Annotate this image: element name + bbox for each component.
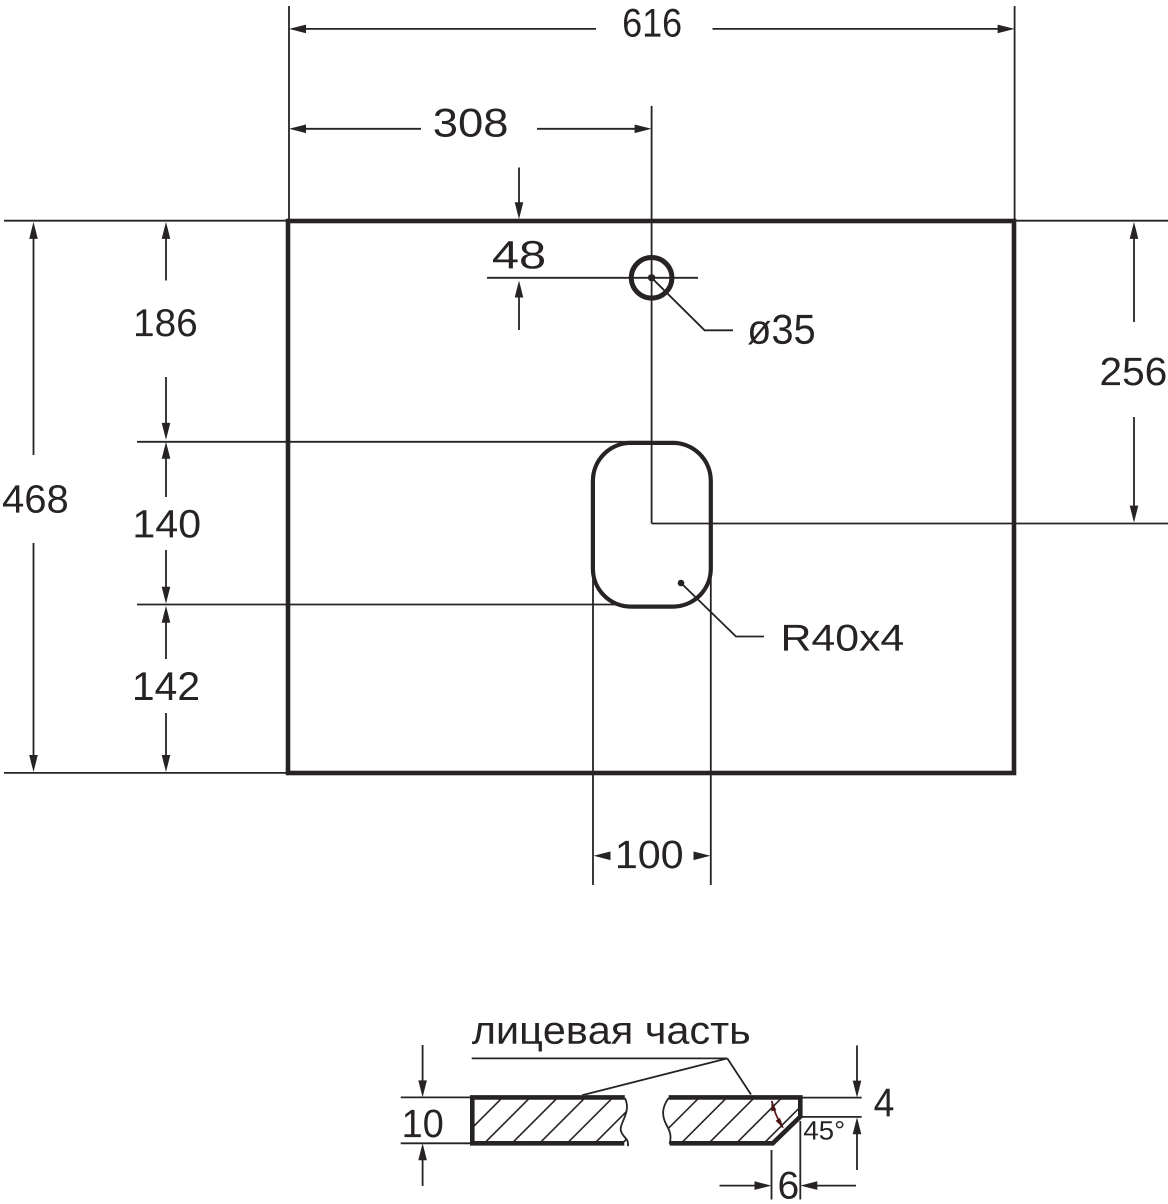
- dim 6 dimension arrows: [720, 1181, 857, 1190]
- section left slab: [472, 1095, 628, 1146]
- leader line front part: [472, 1058, 751, 1095]
- dim 616 extension line left: [288, 6, 290, 219]
- leader line R40x4: [681, 583, 764, 637]
- dim 10 upper arrow: [418, 1045, 427, 1097]
- dim 308 dimension line: [289, 125, 652, 134]
- dim 142 dimension line: [162, 606, 171, 772]
- dim 4 label: [875, 1089, 894, 1117]
- drain cutout rounded rectangle R40x4: [593, 443, 711, 607]
- dim 10 label: [405, 1110, 443, 1138]
- dim 308 label: [435, 109, 507, 138]
- top edge extension line left: [4, 220, 288, 222]
- dim 48 lower arrow: [515, 281, 524, 331]
- dim 140 label: [136, 510, 200, 538]
- label 45 degrees: [804, 1121, 844, 1140]
- top edge extension line right: [1014, 220, 1168, 222]
- dim 100 arrows: [594, 852, 711, 861]
- dim 142 label: [135, 672, 198, 700]
- dim 6 label: [780, 1172, 798, 1200]
- label ø35: [748, 315, 814, 345]
- dim 48 upper arrow: [515, 168, 524, 220]
- dim 256 dimension line: [1130, 222, 1139, 523]
- angle arc 45 degrees: [771, 1100, 784, 1129]
- label R40x4: [784, 625, 903, 652]
- dim 616 extension line right: [1014, 6, 1016, 219]
- dim 100 extension line right: [710, 576, 712, 885]
- leader line ø35: [653, 279, 734, 331]
- dim 4 lower arrow: [853, 1117, 862, 1170]
- dim 10 lower arrow: [418, 1143, 427, 1186]
- dim 616 dimension line: [289, 25, 1015, 34]
- faucet hole center dot: [648, 274, 655, 281]
- dim 4 extension lines: [801, 1097, 862, 1099]
- label front part (лицевая часть): [472, 1023, 749, 1052]
- leader dot R40x4: [678, 580, 685, 587]
- dim 186 label: [136, 309, 196, 337]
- dim 48 label: [493, 241, 544, 269]
- dim 140 dimension line: [162, 442, 171, 604]
- cutout top extension line: [137, 441, 651, 443]
- dim 468 dimension line: [29, 222, 38, 772]
- dim 10 extension lines: [401, 1096, 470, 1098]
- faucet hole horizontal center line: [487, 277, 698, 279]
- hatching left slab: [426, 1094, 671, 1146]
- bottom edge extension line left: [4, 772, 288, 774]
- cutout bottom extension line: [137, 604, 618, 606]
- faucet hole vertical center line: [651, 106, 653, 524]
- dim 616 label: [624, 9, 681, 37]
- dim 100 label: [618, 841, 682, 869]
- dim 4 upper arrow: [853, 1045, 862, 1097]
- dim 256 label: [1102, 358, 1166, 386]
- cutout horizontal center line to right: [652, 523, 1168, 525]
- section right slab: [663, 1095, 803, 1146]
- dim 6 extension line left: [771, 1150, 773, 1200]
- dim 100 extension line left: [592, 576, 594, 885]
- hatching right slab: [651, 1094, 841, 1146]
- dim 6 extension line right: [799, 1121, 801, 1200]
- faucet hole circle ø35: [631, 258, 672, 299]
- dim 468 label: [3, 485, 67, 513]
- dim 186 dimension line: [162, 222, 171, 440]
- countertop outline rectangle: [288, 221, 1014, 773]
